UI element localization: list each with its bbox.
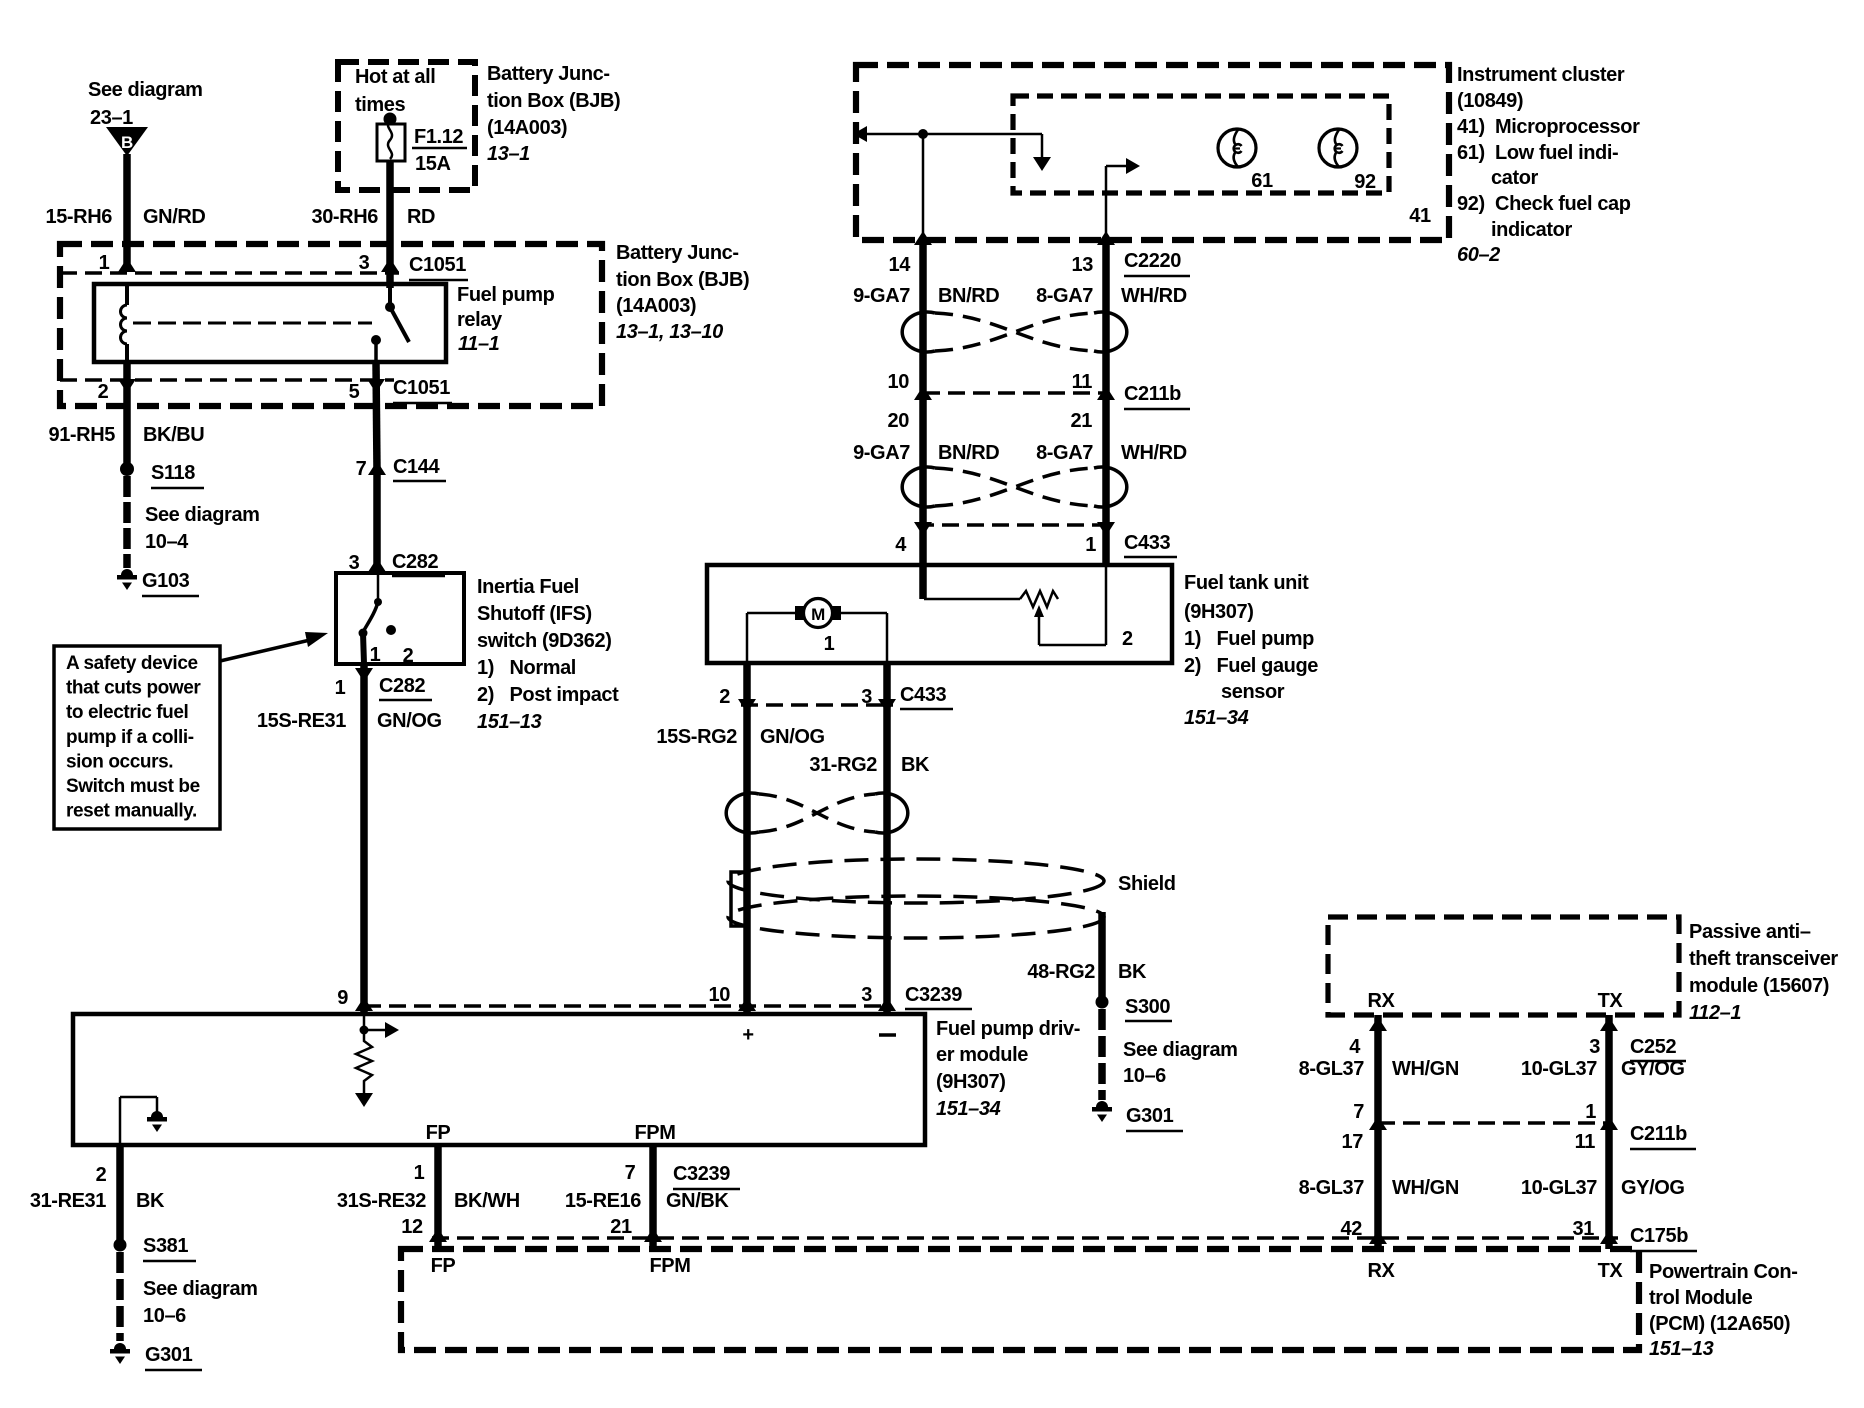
svg-text:(14A003): (14A003) <box>616 295 696 317</box>
svg-text:RX: RX <box>1368 990 1396 1012</box>
svg-text:(PCM) (12A650): (PCM) (12A650) <box>1649 1313 1790 1335</box>
svg-text:C433: C433 <box>1124 532 1170 554</box>
svg-text:20: 20 <box>888 410 910 432</box>
svg-text:GN/RD: GN/RD <box>143 206 205 228</box>
svg-text:C252: C252 <box>1630 1036 1676 1058</box>
svg-text:S300: S300 <box>1125 996 1170 1018</box>
svg-text:4: 4 <box>1349 1036 1361 1058</box>
svg-text:S381: S381 <box>143 1235 188 1257</box>
svg-text:61: 61 <box>1251 170 1273 192</box>
svg-text:1) Normal: 1) Normal <box>477 657 576 679</box>
svg-text:5: 5 <box>349 381 360 403</box>
svg-text:Powertrain Con-: Powertrain Con- <box>1649 1261 1797 1283</box>
svg-text:31-RE31: 31-RE31 <box>30 1190 106 1212</box>
svg-text:11–1: 11–1 <box>458 333 500 355</box>
svg-text:BN/RD: BN/RD <box>938 442 999 464</box>
svg-text:10: 10 <box>888 371 910 393</box>
svg-text:WH/GN: WH/GN <box>1392 1177 1459 1199</box>
svg-text:3: 3 <box>349 552 360 574</box>
svg-text:13–1, 13–10: 13–1, 13–10 <box>616 321 723 343</box>
svg-text:BK/WH: BK/WH <box>454 1190 520 1212</box>
svg-text:1: 1 <box>824 633 835 655</box>
svg-text:to electric fuel: to electric fuel <box>66 702 188 723</box>
svg-text:C3239: C3239 <box>673 1163 730 1185</box>
svg-text:WH/RD: WH/RD <box>1121 442 1187 464</box>
svg-text:31-RG2: 31-RG2 <box>809 754 877 776</box>
svg-text:C144: C144 <box>393 456 440 478</box>
svg-text:92) Check fuel cap: 92) Check fuel cap <box>1457 193 1631 215</box>
svg-text:3: 3 <box>861 984 872 1006</box>
svg-text:17: 17 <box>1342 1131 1364 1153</box>
svg-text:Switch must be: Switch must be <box>66 776 200 797</box>
svg-text:15A: 15A <box>415 153 451 175</box>
svg-text:C1051: C1051 <box>409 254 466 276</box>
svg-text:BN/RD: BN/RD <box>938 285 999 307</box>
svg-text:1: 1 <box>99 252 110 274</box>
svg-text:Battery Junc-: Battery Junc- <box>616 242 739 264</box>
svg-text:WH/GN: WH/GN <box>1392 1058 1459 1080</box>
svg-text:er module: er module <box>936 1044 1028 1066</box>
svg-text:times: times <box>355 94 406 116</box>
svg-text:4: 4 <box>895 534 907 556</box>
svg-text:(9H307): (9H307) <box>936 1071 1005 1093</box>
svg-text:WH/RD: WH/RD <box>1121 285 1187 307</box>
svg-text:91-RH5: 91-RH5 <box>48 424 115 446</box>
svg-text:21: 21 <box>1071 410 1093 432</box>
svg-text:3: 3 <box>1589 1036 1600 1058</box>
svg-text:11: 11 <box>1575 1131 1596 1153</box>
svg-text:10–6: 10–6 <box>1123 1065 1166 1087</box>
svg-text:pump if a colli-: pump if a colli- <box>66 727 194 748</box>
svg-text:2: 2 <box>1122 628 1133 650</box>
svg-text:theft transceiver: theft transceiver <box>1689 948 1838 970</box>
svg-text:61) Low fuel indi-: 61) Low fuel indi- <box>1457 142 1618 164</box>
svg-text:1: 1 <box>370 644 381 666</box>
svg-text:C433: C433 <box>900 684 946 706</box>
svg-text:2: 2 <box>96 1164 107 1186</box>
svg-text:C175b: C175b <box>1630 1225 1688 1247</box>
svg-text:BK: BK <box>1118 961 1147 983</box>
svg-text:8-GL37: 8-GL37 <box>1299 1177 1365 1199</box>
svg-text:9-GA7: 9-GA7 <box>853 285 910 307</box>
svg-text:31S-RE32: 31S-RE32 <box>337 1190 426 1212</box>
svg-text:Instrument cluster: Instrument cluster <box>1457 64 1625 86</box>
svg-text:1: 1 <box>335 677 346 699</box>
svg-text:Shield: Shield <box>1118 873 1176 895</box>
svg-text:GY/OG: GY/OG <box>1621 1058 1685 1080</box>
svg-text:(10849): (10849) <box>1457 90 1523 112</box>
svg-text:GN/OG: GN/OG <box>377 710 442 732</box>
svg-text:2: 2 <box>719 686 730 708</box>
svg-text:Fuel pump driv-: Fuel pump driv- <box>936 1018 1080 1040</box>
svg-text:8-GL37: 8-GL37 <box>1299 1058 1365 1080</box>
svg-text:+: + <box>742 1024 753 1046</box>
svg-text:cator: cator <box>1491 167 1539 189</box>
svg-text:10–6: 10–6 <box>143 1305 186 1327</box>
svg-text:GN/OG: GN/OG <box>760 726 825 748</box>
svg-text:151–34: 151–34 <box>936 1098 1001 1120</box>
svg-text:C3239: C3239 <box>905 984 962 1006</box>
svg-text:7: 7 <box>356 458 367 480</box>
svg-text:2: 2 <box>98 381 109 403</box>
svg-text:151–13: 151–13 <box>477 711 542 733</box>
svg-text:tion Box (BJB): tion Box (BJB) <box>616 269 749 291</box>
svg-text:C211b: C211b <box>1630 1123 1687 1145</box>
svg-text:15-RH6: 15-RH6 <box>45 206 112 228</box>
svg-text:module (15607): module (15607) <box>1689 975 1829 997</box>
svg-text:C2220: C2220 <box>1124 250 1181 272</box>
svg-text:C1051: C1051 <box>393 377 450 399</box>
svg-text:RD: RD <box>407 206 435 228</box>
svg-text:41: 41 <box>1409 205 1431 227</box>
svg-text:Hot at all: Hot at all <box>355 66 435 88</box>
svg-text:G301: G301 <box>145 1344 193 1366</box>
svg-text:Inertia Fuel: Inertia Fuel <box>477 576 579 598</box>
svg-text:C282: C282 <box>379 675 425 697</box>
svg-text:BK: BK <box>901 754 930 776</box>
svg-text:FP: FP <box>426 1122 451 1144</box>
svg-text:M: M <box>811 605 825 624</box>
svg-text:13–1: 13–1 <box>487 143 530 165</box>
svg-text:9-GA7: 9-GA7 <box>853 442 910 464</box>
svg-text:15S-RG2: 15S-RG2 <box>656 726 737 748</box>
svg-text:8-GA7: 8-GA7 <box>1036 442 1093 464</box>
svg-text:C211b: C211b <box>1124 383 1181 405</box>
svg-text:151–13: 151–13 <box>1649 1338 1714 1360</box>
svg-text:9: 9 <box>337 987 348 1009</box>
svg-text:60–2: 60–2 <box>1457 244 1500 266</box>
svg-text:See diagram: See diagram <box>145 504 260 526</box>
svg-text:G103: G103 <box>142 570 190 592</box>
svg-text:GN/BK: GN/BK <box>666 1190 729 1212</box>
svg-text:10-GL37: 10-GL37 <box>1521 1177 1597 1199</box>
svg-text:30-RH6: 30-RH6 <box>311 206 378 228</box>
svg-text:TX: TX <box>1598 990 1624 1012</box>
svg-text:Fuel tank unit: Fuel tank unit <box>1184 572 1309 594</box>
svg-text:10: 10 <box>709 984 731 1006</box>
svg-text:12: 12 <box>401 1216 423 1238</box>
svg-text:C282: C282 <box>392 551 438 573</box>
svg-text:41) Microprocessor: 41) Microprocessor <box>1457 116 1640 138</box>
svg-text:2) Fuel gauge: 2) Fuel gauge <box>1184 655 1318 677</box>
svg-text:15-RE16: 15-RE16 <box>565 1190 641 1212</box>
svg-text:Passive anti–: Passive anti– <box>1689 921 1811 943</box>
svg-text:tion Box (BJB): tion Box (BJB) <box>487 90 620 112</box>
svg-text:1) Fuel pump: 1) Fuel pump <box>1184 628 1314 650</box>
svg-text:reset manually.: reset manually. <box>66 801 197 822</box>
svg-text:10-GL37: 10-GL37 <box>1521 1058 1597 1080</box>
svg-text:B: B <box>121 133 133 152</box>
svg-text:sion occurs.: sion occurs. <box>66 751 173 772</box>
svg-text:3: 3 <box>861 686 872 708</box>
svg-text:sensor: sensor <box>1221 681 1285 703</box>
svg-text:112–1: 112–1 <box>1689 1002 1741 1024</box>
svg-text:1: 1 <box>1585 1101 1596 1123</box>
svg-text:2: 2 <box>403 645 414 667</box>
svg-text:15S-RE31: 15S-RE31 <box>257 710 346 732</box>
svg-text:G301: G301 <box>1126 1105 1174 1127</box>
svg-text:48-RG2: 48-RG2 <box>1027 961 1095 983</box>
svg-text:BK/BU: BK/BU <box>143 424 204 446</box>
svg-text:Battery Junc-: Battery Junc- <box>487 63 610 85</box>
svg-text:1: 1 <box>1085 534 1096 556</box>
svg-text:10–4: 10–4 <box>145 531 189 553</box>
svg-text:See diagram: See diagram <box>143 1278 258 1300</box>
svg-text:trol Module: trol Module <box>1649 1287 1753 1309</box>
svg-text:7: 7 <box>625 1162 636 1184</box>
svg-text:FPM: FPM <box>649 1255 690 1277</box>
svg-text:F1.12: F1.12 <box>414 126 463 148</box>
svg-text:that cuts power: that cuts power <box>66 678 201 699</box>
svg-text:3: 3 <box>359 252 370 274</box>
svg-text:GY/OG: GY/OG <box>1621 1177 1685 1199</box>
svg-text:switch (9D362): switch (9D362) <box>477 630 611 652</box>
svg-text:See diagram: See diagram <box>88 79 203 101</box>
svg-text:11: 11 <box>1072 371 1093 393</box>
svg-text:TX: TX <box>1598 1260 1624 1282</box>
svg-text:(9H307): (9H307) <box>1184 601 1253 623</box>
svg-text:indicator: indicator <box>1491 219 1572 241</box>
svg-text:Shutoff (IFS): Shutoff (IFS) <box>477 603 592 625</box>
svg-text:RX: RX <box>1368 1260 1396 1282</box>
svg-text:151–34: 151–34 <box>1184 707 1249 729</box>
svg-text:13: 13 <box>1072 254 1094 276</box>
svg-text:(14A003): (14A003) <box>487 117 567 139</box>
svg-text:92: 92 <box>1354 171 1376 193</box>
svg-text:Fuel pump: Fuel pump <box>457 284 555 306</box>
svg-text:2) Post impact: 2) Post impact <box>477 684 619 706</box>
svg-text:FPM: FPM <box>634 1122 675 1144</box>
svg-text:A safety device: A safety device <box>66 653 198 674</box>
svg-text:BK: BK <box>136 1190 165 1212</box>
svg-text:See diagram: See diagram <box>1123 1039 1238 1061</box>
svg-text:relay: relay <box>457 309 503 331</box>
svg-text:FP: FP <box>431 1255 456 1277</box>
svg-text:14: 14 <box>889 254 912 276</box>
svg-text:S118: S118 <box>151 462 195 484</box>
svg-text:8-GA7: 8-GA7 <box>1036 285 1093 307</box>
svg-text:23–1: 23–1 <box>90 107 133 129</box>
svg-text:1: 1 <box>414 1162 425 1184</box>
svg-text:21: 21 <box>610 1216 632 1238</box>
svg-text:7: 7 <box>1353 1101 1364 1123</box>
